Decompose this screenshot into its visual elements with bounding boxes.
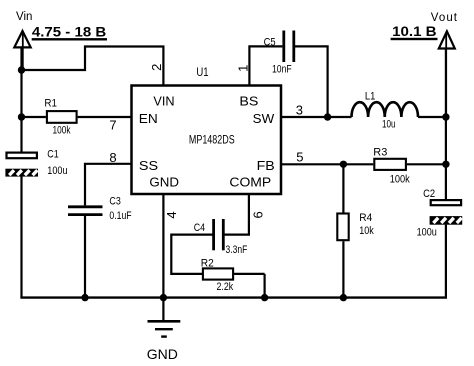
svg-text:8: 8 [109, 150, 116, 165]
svg-text:COMP: COMP [229, 175, 271, 190]
svg-text:Vin: Vin [16, 11, 32, 23]
svg-text:6: 6 [250, 211, 265, 218]
svg-text:BS: BS [239, 93, 258, 108]
svg-text:100u: 100u [417, 226, 437, 238]
svg-text:100u: 100u [47, 165, 67, 177]
svg-text:10nF: 10nF [272, 64, 292, 76]
svg-text:U1: U1 [196, 67, 208, 79]
svg-text:10u: 10u [382, 119, 396, 131]
svg-text:VIN: VIN [153, 93, 174, 108]
svg-text:MP1482DS: MP1482DS [189, 135, 235, 147]
svg-text:2: 2 [149, 64, 164, 71]
svg-text:1: 1 [235, 65, 250, 72]
svg-text:10.1 В: 10.1 В [392, 23, 437, 39]
svg-text:4.75 - 18 В: 4.75 - 18 В [32, 24, 106, 40]
svg-text:C1: C1 [47, 149, 58, 161]
svg-text:FB: FB [257, 158, 275, 173]
svg-text:C4: C4 [194, 222, 205, 234]
svg-text:4: 4 [164, 211, 179, 218]
svg-text:C2: C2 [423, 188, 435, 200]
svg-text:3: 3 [296, 103, 303, 118]
svg-text:3.3nF: 3.3nF [226, 244, 248, 256]
svg-text:5: 5 [296, 149, 303, 164]
svg-text:100k: 100k [53, 125, 71, 137]
svg-text:GND: GND [147, 346, 178, 362]
svg-text:R4: R4 [359, 212, 372, 224]
svg-text:SS: SS [139, 158, 159, 173]
svg-text:2.2k: 2.2k [217, 281, 234, 293]
svg-text:100k: 100k [390, 173, 410, 185]
svg-text:EN: EN [139, 111, 158, 126]
svg-text:0.1uF: 0.1uF [109, 210, 131, 222]
svg-text:R3: R3 [373, 146, 387, 158]
svg-text:L1: L1 [365, 91, 376, 103]
svg-text:10k: 10k [359, 225, 374, 237]
svg-text:C3: C3 [109, 195, 120, 207]
svg-text:GND: GND [149, 175, 179, 190]
svg-text:C5: C5 [264, 37, 276, 49]
svg-text:R1: R1 [44, 98, 57, 110]
svg-text:7: 7 [109, 118, 116, 133]
svg-text:R2: R2 [201, 258, 214, 270]
svg-text:SW: SW [253, 111, 275, 126]
